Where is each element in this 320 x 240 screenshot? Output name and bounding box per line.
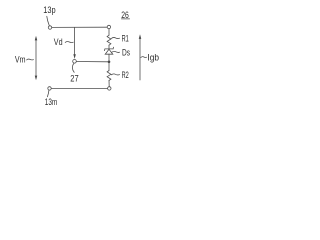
svg-text:27: 27 xyxy=(70,73,78,83)
wire R2 to bottom terminal xyxy=(108,81,110,87)
resistor R2 xyxy=(107,71,111,81)
svg-text:Igb: Igb xyxy=(147,52,159,62)
terminal 13p xyxy=(48,26,51,29)
Vd leader xyxy=(65,41,73,44)
R2 leader xyxy=(111,74,119,75)
svg-text:26: 26 xyxy=(121,10,129,20)
current arrow Igb xyxy=(139,34,142,80)
svg-text:R1: R1 xyxy=(122,33,129,43)
resistor R1 xyxy=(107,35,111,45)
wire R1 to Ds xyxy=(108,45,110,49)
svg-text:Vm: Vm xyxy=(15,54,26,64)
node 27 leader xyxy=(72,63,74,72)
wire Ds to R2 xyxy=(108,54,110,70)
wire bottom xyxy=(51,87,107,89)
svg-text:Ds: Ds xyxy=(122,47,130,57)
Ds leader xyxy=(112,51,120,52)
voltage arrow Vd xyxy=(73,28,76,59)
Igb leader xyxy=(141,56,147,59)
terminal 26 xyxy=(107,25,110,28)
terminal 13m leader xyxy=(47,90,49,97)
terminal 13m xyxy=(48,87,51,90)
wire top xyxy=(52,26,107,28)
bottom terminal of branch xyxy=(108,87,111,90)
R1 leader xyxy=(111,37,119,38)
voltage arrow Vm xyxy=(35,36,38,80)
Vm leader xyxy=(27,58,34,61)
zener diode Ds xyxy=(104,47,113,54)
node 27 terminal xyxy=(73,60,77,64)
svg-text:13p: 13p xyxy=(43,5,55,15)
wire node 27 horizontal xyxy=(76,61,108,63)
wire 26 to R1 xyxy=(108,29,110,35)
svg-text:13m: 13m xyxy=(45,97,57,107)
svg-text:Vd: Vd xyxy=(54,37,63,47)
junction dot node 27 xyxy=(108,61,111,64)
svg-text:R2: R2 xyxy=(122,70,129,80)
terminal 13p leader xyxy=(47,16,49,25)
